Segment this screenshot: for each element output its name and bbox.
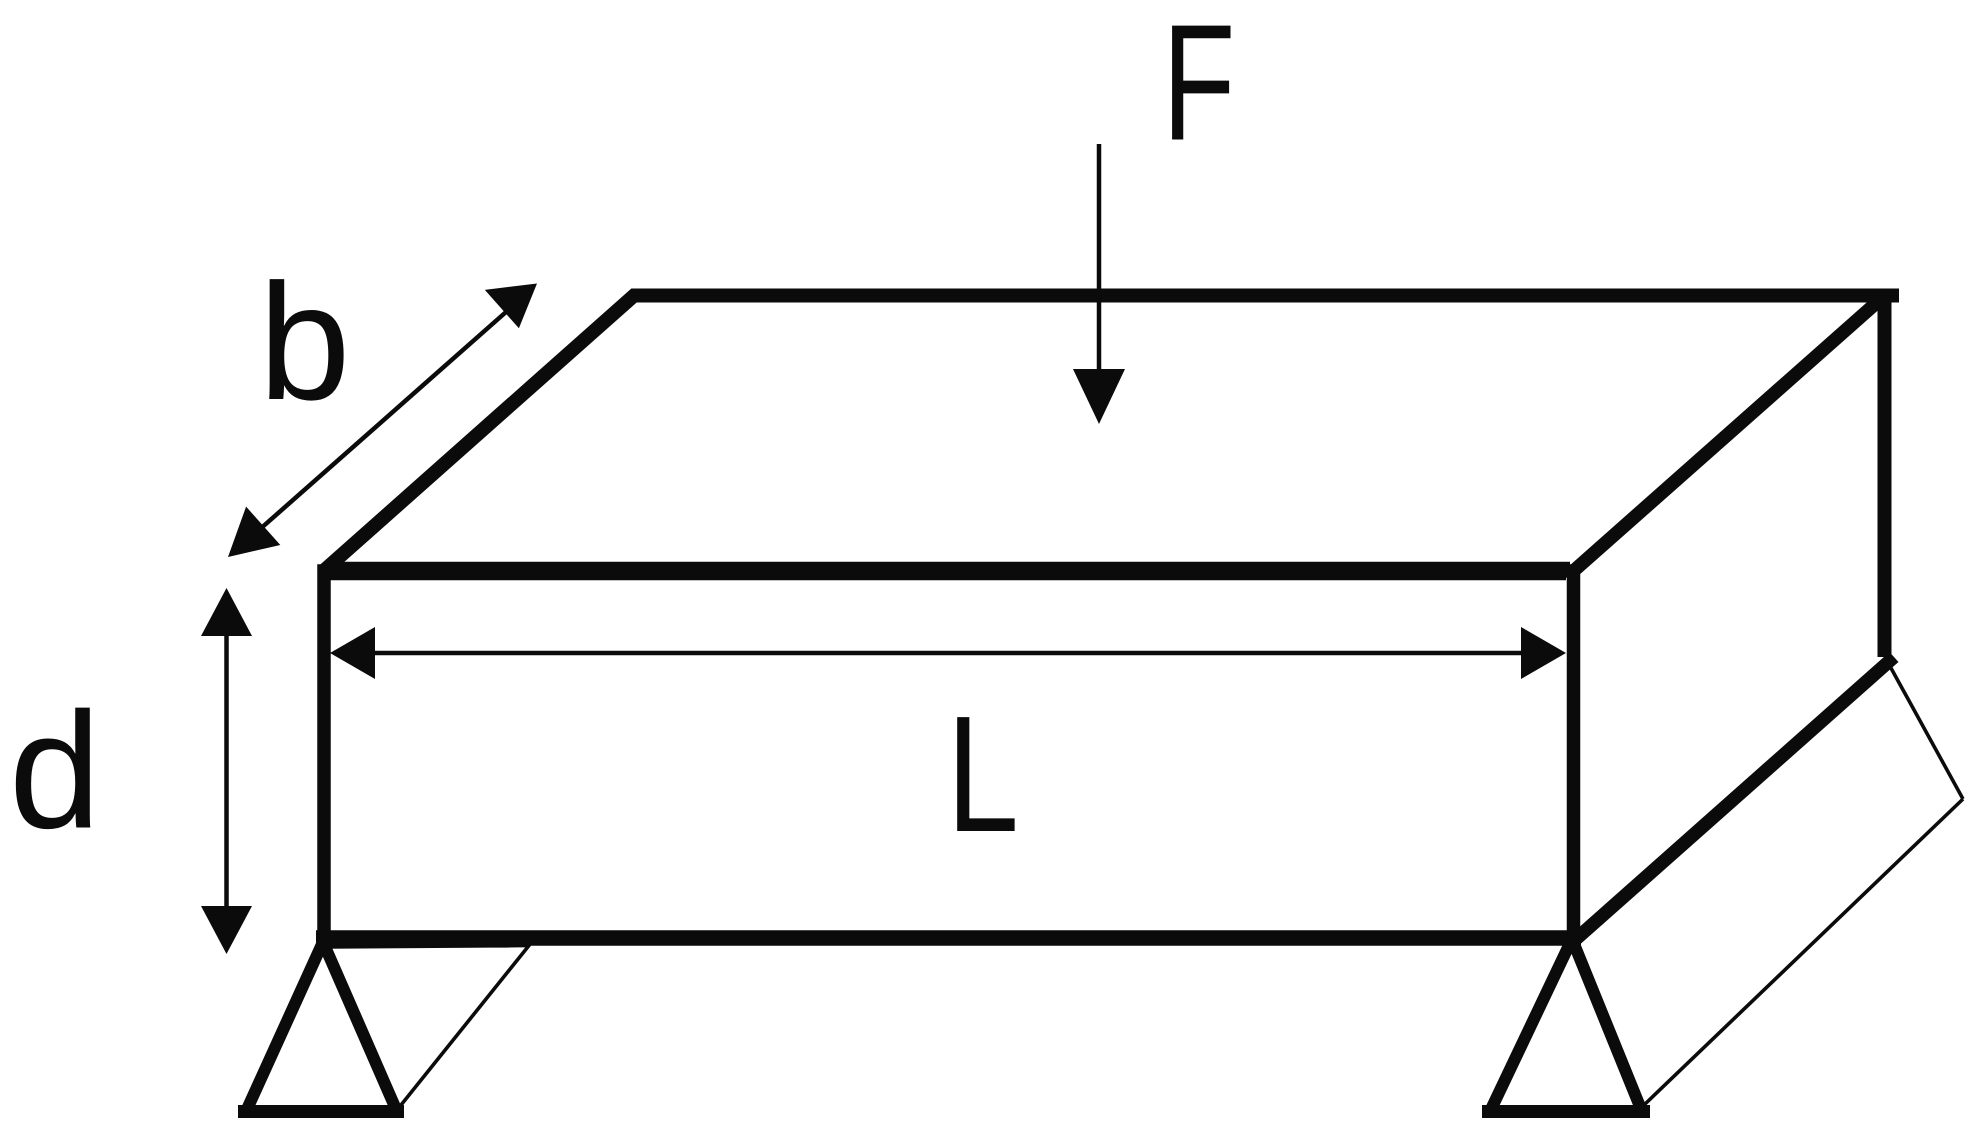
svg-text:F: F [1162, 0, 1235, 175]
svg-text:d: d [9, 679, 101, 864]
svg-text:L: L [947, 681, 1019, 867]
svg-text:b: b [259, 250, 351, 435]
